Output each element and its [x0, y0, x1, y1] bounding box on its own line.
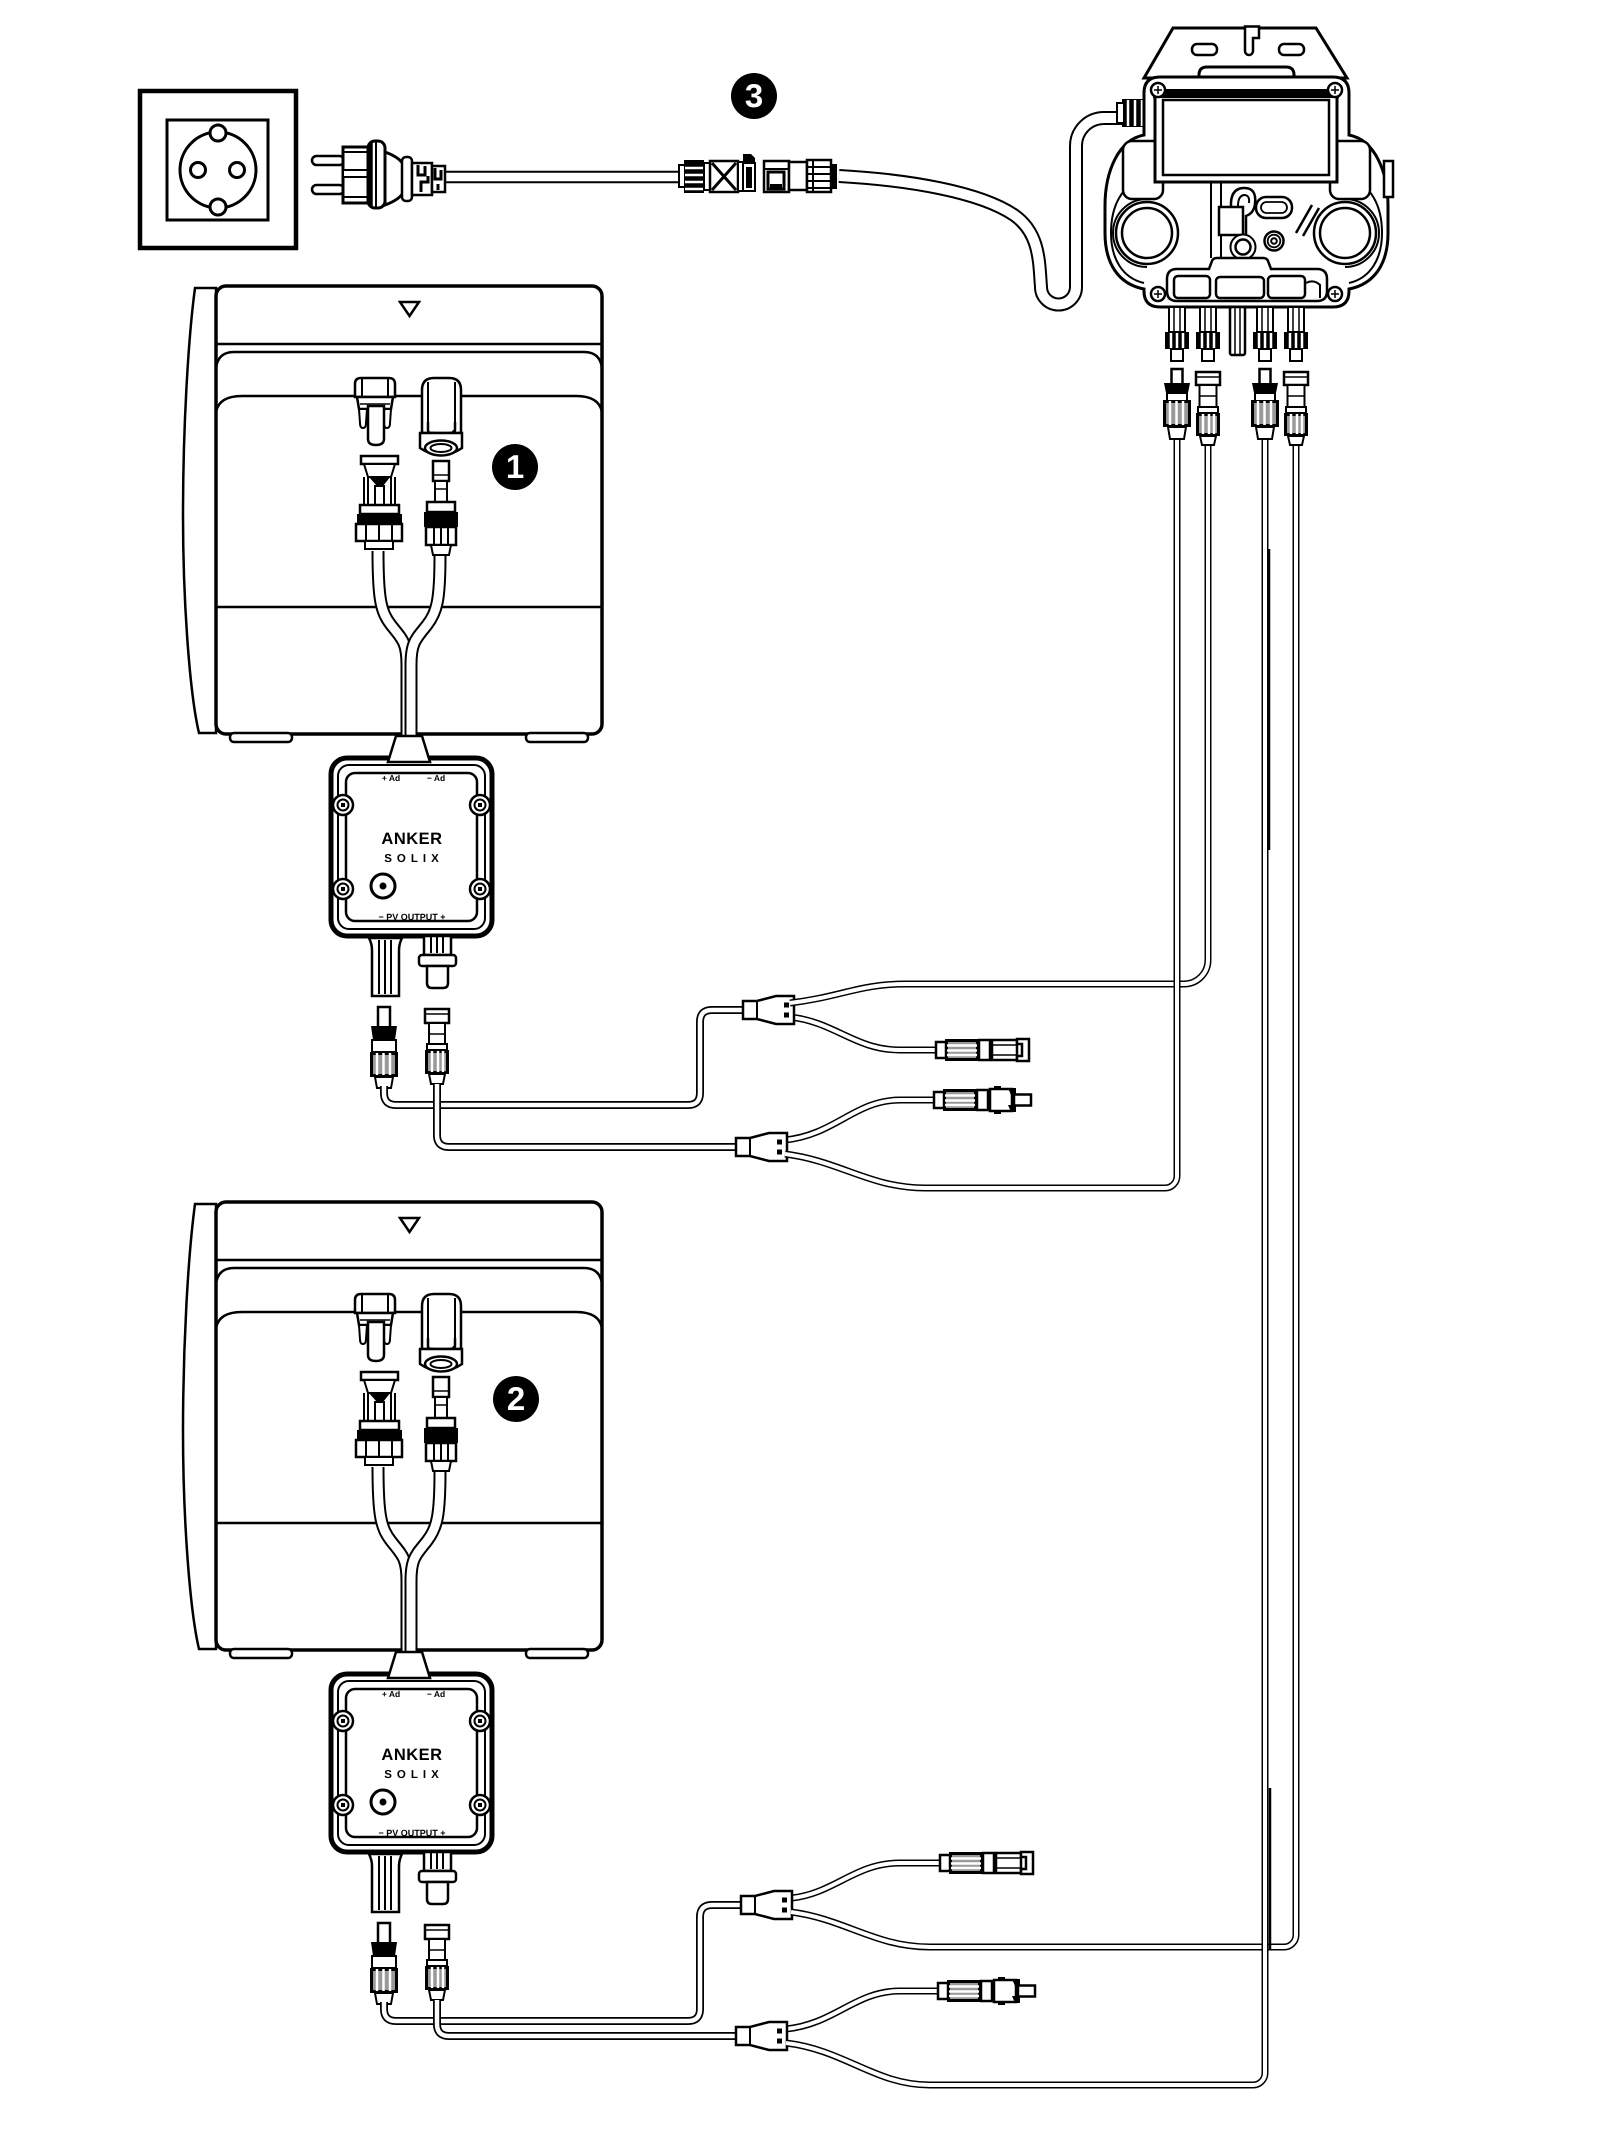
svg-text:ANKER: ANKER	[381, 830, 442, 848]
svg-text:2: 2	[507, 1380, 525, 1417]
svg-text:1: 1	[506, 448, 524, 485]
svg-text:− Ad: − Ad	[427, 773, 445, 783]
svg-text:− Ad: − Ad	[427, 1689, 445, 1699]
svg-text:− PV OUTPUT +: − PV OUTPUT +	[378, 912, 445, 922]
svg-text:ANKER: ANKER	[381, 1746, 442, 1764]
svg-text:+ Ad: + Ad	[382, 773, 400, 783]
svg-text:SOLIX: SOLIX	[384, 1769, 444, 1781]
svg-text:SOLIX: SOLIX	[384, 853, 444, 865]
svg-text:3: 3	[745, 77, 763, 114]
svg-text:+ Ad: + Ad	[382, 1689, 400, 1699]
svg-text:− PV OUTPUT +: − PV OUTPUT +	[378, 1828, 445, 1838]
